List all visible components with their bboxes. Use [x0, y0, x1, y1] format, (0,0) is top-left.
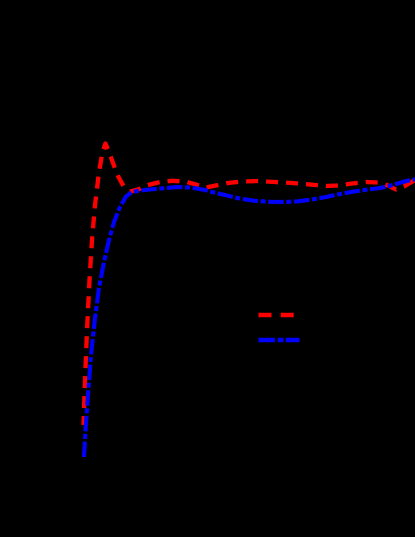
red dashed curve (series 1) — [84, 144, 415, 426]
blue dash-dot curve (series 2) — [84, 179, 415, 457]
legend key sample: blue dash-dot — [259, 338, 300, 343]
legend key sample: red dashed — [259, 313, 295, 318]
